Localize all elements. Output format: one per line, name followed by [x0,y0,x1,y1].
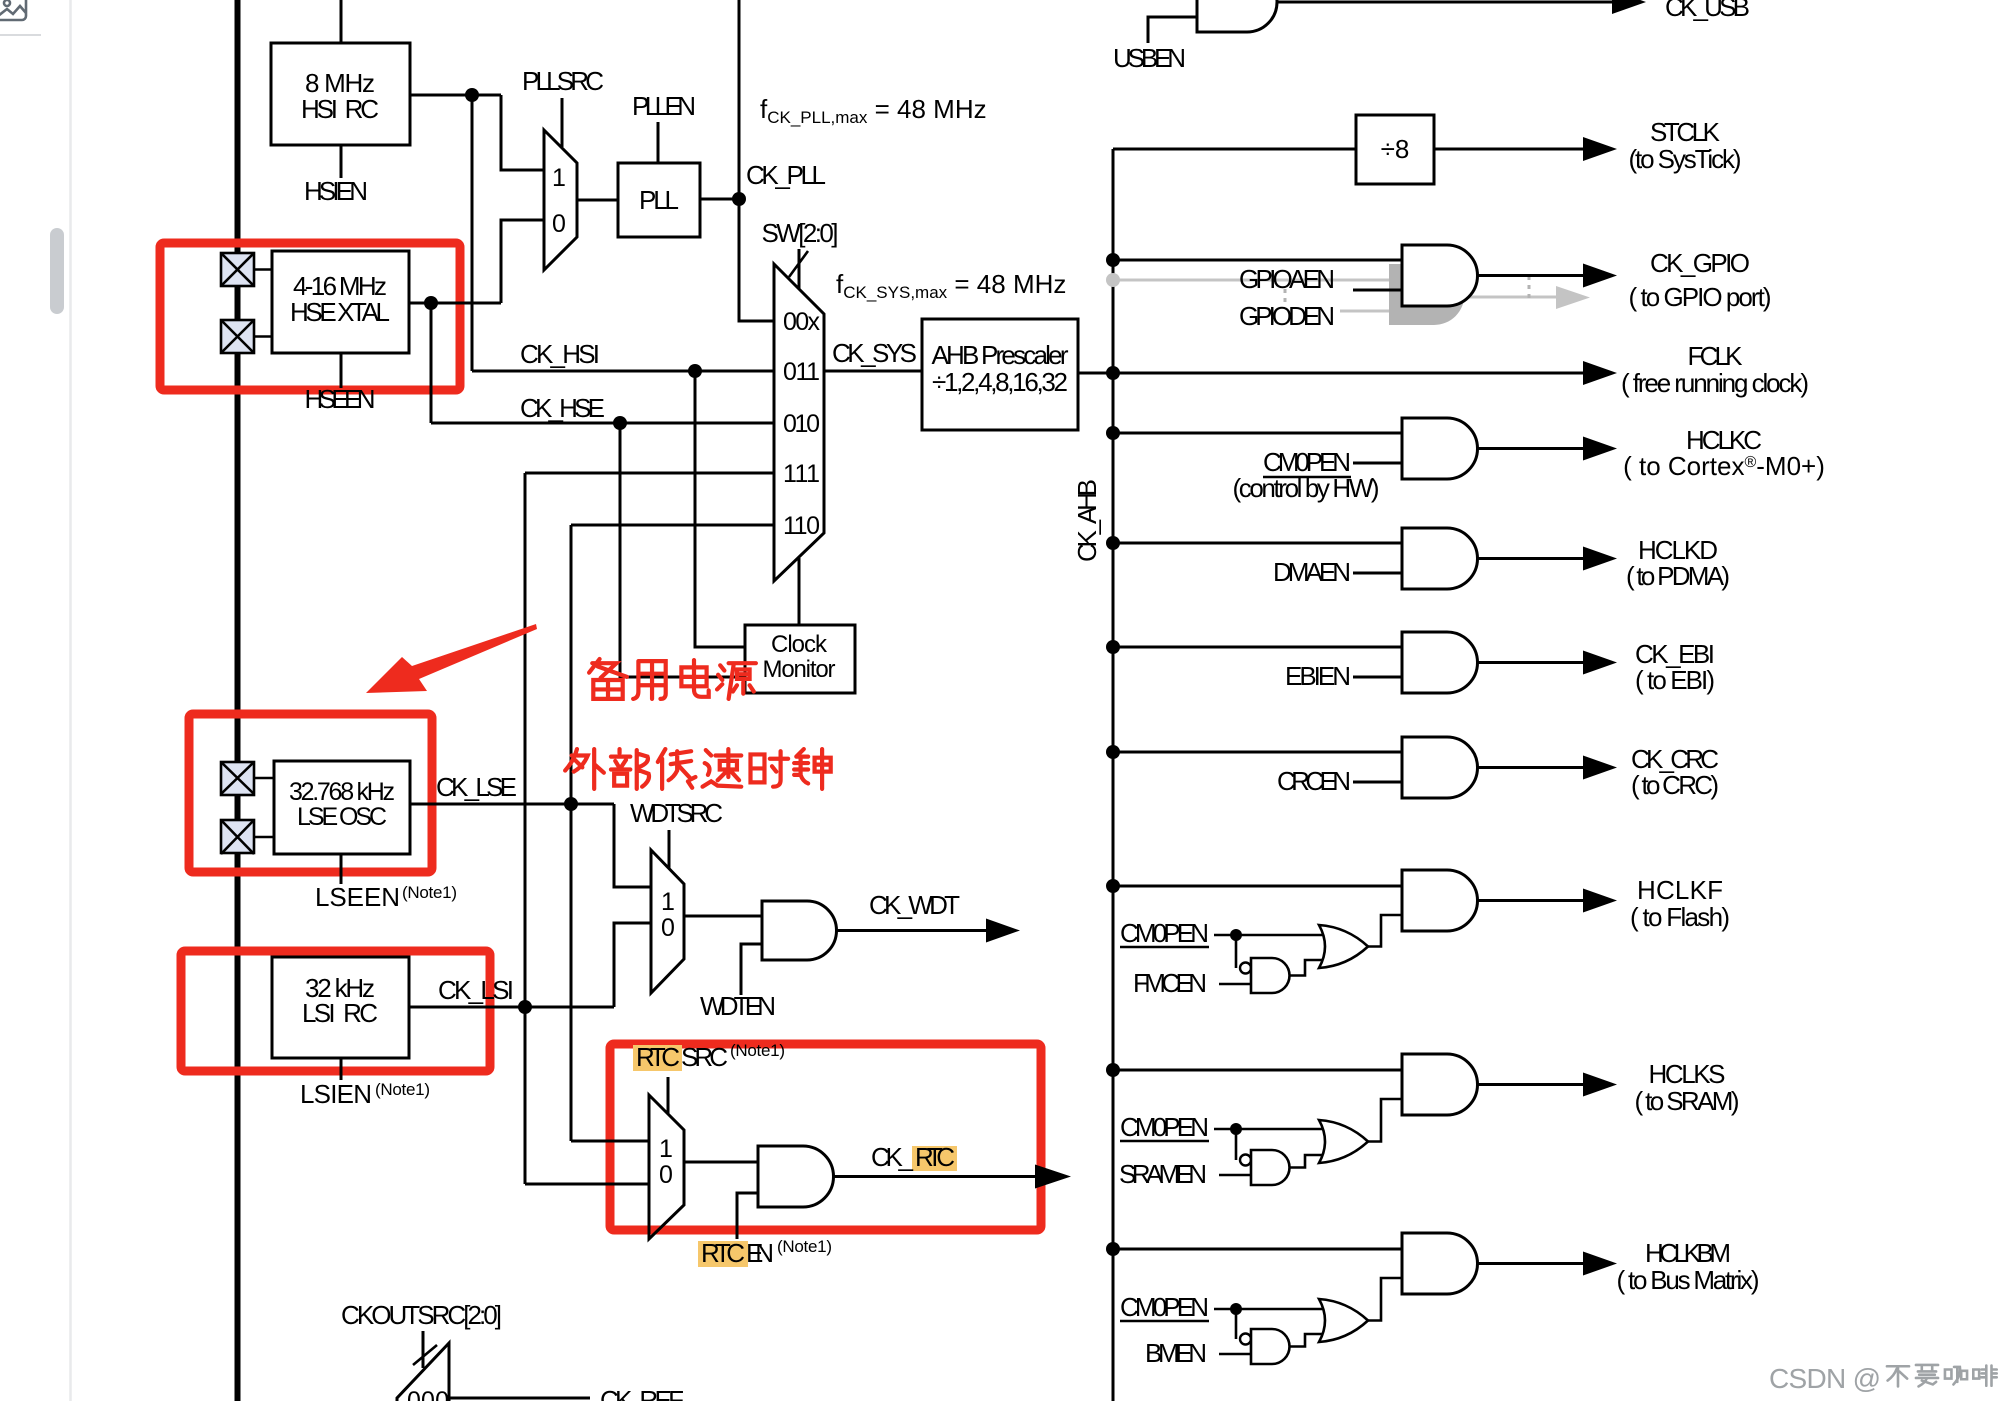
wire PLLEN stub [657,122,660,163]
wire CM0PEN stub [1353,462,1402,465]
oscillator HSE box [272,251,409,353]
slash bus-width mark [413,1345,437,1365]
wire CRCEN stub [1353,781,1402,784]
wire RTC mux input 0 [525,1183,649,1186]
wire CK_LSI [409,1006,614,1009]
mux SW system clock [774,264,824,581]
and-gate CK_CRC [1402,737,1477,798]
junction CK_HSE to monitor [613,416,627,430]
svg-text:EN: EN [746,1238,774,1268]
wire monitor to mux bottom [798,558,801,625]
svg-text:LSEEN: LSEEN [315,882,400,912]
arrow gray CK_GPIO [1556,286,1590,309]
highlight box LSI (red) [181,951,490,1071]
svg-text:(to SysTick): (to SysTick) [1629,144,1742,174]
svg-text:(Note1): (Note1) [777,1237,832,1256]
wire STCLK output [1434,148,1583,151]
junction CK_LSE node [564,797,578,811]
arrow CK_EBI [1583,651,1617,675]
wire CM0PEN to OR [1214,1308,1327,1311]
oscillator HSI box [271,43,410,145]
wire OR to gate second input [1368,1099,1402,1142]
and-gate inverted-input [1251,1329,1290,1364]
and-gate CK_RTC [758,1146,833,1207]
crystal X1 [221,253,272,286]
wire gray GPIODEN stub [1340,310,1389,313]
svg-text:CK_HSI: CK_HSI [520,339,600,369]
wire CM0PEN down to inverter [1235,1309,1238,1339]
wire HCLKC output [1477,447,1583,450]
svg-text:( to Flash): ( to Flash) [1630,902,1730,932]
mux CKOUT (clipped) [397,1343,449,1401]
wire OR to gate second input [1368,915,1402,947]
svg-text:( free running clock): ( free running clock) [1621,368,1809,398]
junction bus GPIO [1106,253,1120,267]
dotted link labels [1284,289,1287,307]
svg-text:LSI RC: LSI RC [302,998,378,1028]
svg-text:Monitor: Monitor [763,656,836,683]
wire DMAEN stub [1353,572,1402,575]
junction CK_LSI node [518,1000,532,1014]
svg-text:0: 0 [659,1161,673,1189]
svg-text:CRCEN: CRCEN [1277,766,1351,796]
wire CK_AHB to bus [1078,372,1113,375]
mux RTCSRC [649,1095,684,1239]
svg-text:HSIEN: HSIEN [304,176,368,206]
wire CK_SYS [824,370,922,373]
wire CK_HSE to clock monitor [620,423,745,677]
svg-text:111: 111 [783,460,820,488]
power domain boundary line [235,0,241,1401]
wire CM0PEN down to inverter [1235,935,1238,968]
wire HSIEN stub [340,145,343,178]
svg-text:CK_LSI: CK_LSI [438,975,514,1005]
watermark hanzi [1887,1365,1997,1386]
wire HCLKD output [1477,557,1583,560]
wire CK_GPIO output [1477,274,1583,277]
svg-text:1: 1 [659,1135,673,1163]
scrollbar thumb [50,228,64,314]
wire bus to HCLKC gate [1113,432,1402,435]
svg-text:1: 1 [661,888,675,916]
svg-text:EBIEN: EBIEN [1285,661,1351,691]
junction bus GPIO gray [1106,273,1120,287]
wire bus to div8 [1113,148,1356,151]
svg-text:CK_USB: CK_USB [1665,0,1750,22]
svg-text:000: 000 [407,1387,449,1401]
wire HCLKF output [1477,899,1583,902]
svg-text:DMAEN: DMAEN [1273,557,1351,587]
arrow CK_USB [1612,0,1646,14]
svg-text:÷1,2,4,8,16,32: ÷1,2,4,8,16,32 [932,367,1068,397]
svg-text:00x: 00x [783,308,821,336]
and-gate CK_USB (clipped) [1197,0,1277,32]
svg-text:SRAMEN: SRAMEN [1119,1159,1207,1189]
underline CM0PEN [1120,1140,1209,1142]
bus CK_AHB vertical [1112,149,1115,1401]
svg-text:( to SRAM): ( to SRAM) [1635,1086,1740,1116]
wire bus to HCLKBM gate top [1113,1248,1402,1251]
svg-text:CM0PEN: CM0PEN [1120,1292,1209,1322]
monitor box [745,625,855,693]
wire FMCEN input [1219,983,1251,986]
svg-text:HCLKF: HCLKF [1637,875,1723,905]
and-gate HCLKC [1402,418,1477,479]
svg-text:SW[2:0]: SW[2:0] [762,218,839,248]
wire CKOUTSRC select stub [422,1331,425,1368]
svg-text:SRC: SRC [681,1042,728,1072]
svg-text:RTC: RTC [636,1042,680,1072]
wire CK_CRC output [1477,766,1583,769]
svg-text:CK_WDT: CK_WDT [869,890,960,920]
and-gate HCLKS [1402,1054,1477,1115]
or-gate enable [1319,1299,1368,1342]
oscillator LSI box [272,957,409,1058]
and-gate HCLKF [1402,870,1477,931]
svg-text:PLLSRC: PLLSRC [522,66,604,96]
highlight box RTC (red) [610,1044,1041,1230]
toolbar image icon [0,0,26,20]
wire gray gate output [1462,296,1556,299]
crystal X3 [221,762,274,795]
wire HSI to PLLSRC mux 1 [501,95,544,170]
svg-text:WDTSRC: WDTSRC [630,798,723,828]
wire WDT mux output [684,915,762,918]
svg-text:32.768 kHz: 32.768 kHz [289,778,395,806]
and-gate HCLKD [1402,528,1477,589]
and-gate HCLKBM [1402,1233,1477,1294]
wire LSE riser (110/RTC1) [570,525,573,1141]
svg-text:HCLKS: HCLKS [1649,1059,1726,1089]
junction CM0PEN [1230,1303,1242,1315]
svg-text:0: 0 [552,210,566,238]
wire bus to CK_CRC gate [1113,751,1402,754]
wire HCLKBM output [1477,1262,1583,1265]
wire gray GPIODEN feed [1113,279,1389,282]
arrow CK_GPIO [1583,264,1617,288]
svg-text:÷8: ÷8 [1381,134,1410,164]
annotation text external low-speed clock (red hanzi) [565,749,831,789]
svg-text:FMCEN: FMCEN [1133,968,1207,998]
wire HCLKS output [1477,1083,1583,1086]
wire CK_LSI to WDT mux 0 [614,923,651,1007]
svg-text:Clock: Clock [771,631,828,658]
svg-text:CK_GPIO: CK_GPIO [1650,248,1750,278]
svg-text:(Note1): (Note1) [375,1080,430,1099]
svg-text:USBEN: USBEN [1113,43,1186,73]
mux PLLSRC [544,130,577,270]
svg-text:PLLEN: PLLEN [632,91,696,121]
svg-text:CM0PEN: CM0PEN [1120,918,1209,948]
wire OR to gate second input [1368,1278,1402,1321]
svg-text:CK_SYS: CK_SYS [832,338,917,368]
arrow CK_CRC [1583,756,1617,780]
wire RTCEN input [737,1193,758,1239]
or-gate enable [1319,1120,1368,1163]
wire CK_USB output [1277,1,1614,4]
svg-text:GPIOAEN: GPIOAEN [1239,264,1335,294]
svg-text:LSE OSC: LSE OSC [297,803,387,831]
svg-text:HSI RC: HSI RC [301,94,379,124]
wire PLL output [700,198,739,201]
wire SW select stub [798,249,801,289]
arrow FCLK [1583,361,1617,385]
wire CK_PLL to USB gate [738,0,741,199]
highlight RTC of RTCSRC [633,1045,682,1071]
shadow gate CK_GPIO (gray) [1389,264,1465,325]
junction bus CK_EBI [1106,640,1120,654]
svg-text:STCLK: STCLK [1650,117,1721,147]
and-gate CK_GPIO [1402,245,1477,306]
wire small and to OR [1290,1334,1325,1347]
svg-text:CK_LSE: CK_LSE [436,772,517,802]
junction bus HCLKF [1106,879,1120,893]
svg-text:CK_AHB: CK_AHB [1072,479,1102,562]
inverter bubble [1240,1155,1251,1166]
svg-text:( to Cortex®-M0+): ( to Cortex®-M0+) [1623,451,1825,481]
wire LSIEN stub [340,1058,343,1080]
svg-text:CSDN @: CSDN @ [1769,1363,1881,1394]
junction CM0PEN [1230,1123,1242,1135]
wire CK_HSE vertical [430,303,433,423]
arrow CK_RTC [1035,1165,1071,1189]
svg-text:( to EBI): ( to EBI) [1635,665,1715,695]
svg-text:HSEEN: HSEEN [305,384,376,414]
svg-text:CK_PLL: CK_PLL [746,160,826,190]
wire RTC mux input 1 [571,1140,649,1143]
wire CK_LSE [410,803,614,806]
svg-text:RTC: RTC [701,1238,745,1268]
wire CK_REF input [449,1397,590,1400]
junction CK_HSI to monitor [688,364,702,378]
wire CM0PEN to OR [1214,1128,1327,1131]
divider AHB prescaler box [922,319,1078,430]
svg-text:FCLK: FCLK [1688,341,1744,371]
underline CM0PEN [1263,476,1351,478]
wire CM0PEN down to inverter [1235,1129,1238,1160]
and-gate CK_WDT [762,901,837,960]
wire BMEN input [1219,1353,1251,1356]
wire USBEN input [1148,17,1197,43]
junction CM0PEN [1230,929,1242,941]
arrow STCLK [1583,137,1617,161]
highlight box HSE (red) [160,243,460,390]
svg-text:HCLKBM: HCLKBM [1645,1238,1731,1268]
pll PLL box [618,163,700,237]
wire CK_HSI vertical [471,95,474,371]
svg-text:RTC: RTC [915,1142,955,1172]
svg-text:CKOUTSRC[2:0]: CKOUTSRC[2:0] [341,1300,502,1330]
wire WDTSRC select stub [668,830,671,869]
wire LSEEN stub [340,854,343,884]
dotted link outputs [1528,276,1531,299]
annotation arrow (red) [366,624,537,693]
and-gate inverted-input [1251,958,1290,993]
wire HSE to PLLSRC mux 0 [501,220,544,303]
arrow HCLKBM [1583,1252,1617,1276]
wire SRAMEN input [1219,1174,1251,1177]
svg-text:GPIODEN: GPIODEN [1239,301,1335,331]
wire CK_HSI [472,370,774,373]
svg-text:CM0PEN: CM0PEN [1120,1112,1209,1142]
svg-text:PLL: PLL [639,185,679,215]
slash bus-width mark [789,251,808,277]
arrow HCLKC [1583,437,1617,461]
wire LSI riser (111/RTC0) [524,473,527,1184]
arrow CK_WDT [986,919,1020,943]
svg-text:1: 1 [552,164,566,192]
inverter bubble [1240,963,1251,974]
svg-text:CK_: CK_ [871,1142,914,1172]
wire HSE output [409,302,501,305]
underline CM0PEN [1120,1320,1209,1322]
svg-text:( to CRC): ( to CRC) [1631,770,1719,800]
wire CK_WDT output [837,929,989,932]
divider div8 box [1356,115,1434,184]
wire mux input 111 [525,472,774,475]
junction bus FCLK [1106,366,1120,380]
wire small and to OR [1290,960,1325,976]
wire CK_HSE [431,422,774,425]
wire mux input 110 [571,524,774,527]
and-gate inverted-input [1251,1150,1290,1185]
wire CM0PEN to OR [1214,934,1327,937]
toolbar divider [0,34,41,36]
svg-text:0: 0 [661,914,675,942]
svg-text:(Note1): (Note1) [730,1041,785,1060]
svg-text:WDTEN: WDTEN [700,991,776,1021]
svg-text:011: 011 [783,358,820,386]
wire small and to OR [1290,1155,1325,1168]
svg-text:LSIEN: LSIEN [300,1079,372,1109]
svg-text:( to Bus Matrix): ( to Bus Matrix) [1617,1265,1760,1295]
wire bus to HCLKF gate top [1113,885,1402,888]
wire FCLK [1113,372,1583,375]
wire RTC mux output [684,1161,758,1164]
svg-text:CK_REF: CK_REF [600,1385,684,1401]
highlight RTC of CK_RTC [912,1146,957,1171]
wire PLLSRC mux output [577,199,618,202]
mux WDTSRC [651,850,684,993]
wire CK_RTC output [834,1175,1038,1178]
sidebar divider [69,0,72,1401]
junction bus HCLKBM [1106,1242,1120,1256]
wire CK_EBI output [1477,661,1583,664]
wire HSEEN stub [340,353,343,388]
arrow HCLKS [1583,1073,1617,1097]
wire GPIOAEN stub [1353,289,1402,292]
junction HSE node [424,296,438,310]
wire RTCSRC select stub [667,1077,670,1114]
junction HSI node [465,88,479,102]
svg-text:AHB Prescaler: AHB Prescaler [932,340,1069,370]
svg-text:HSE XTAL: HSE XTAL [290,297,390,327]
wire EBIEN stub [1353,676,1402,679]
wire HSI output [410,94,501,97]
junction bus HCLKD [1106,536,1120,550]
svg-text:CK_HSE: CK_HSE [520,393,605,423]
junction CK_PLL node [732,192,746,206]
wire bus to HCLKD gate [1113,542,1402,545]
svg-text:( to GPIO port): ( to GPIO port) [1629,282,1772,312]
underline CM0PEN [1120,946,1209,948]
junction bus CK_CRC [1106,745,1120,759]
junction bus HCLKC [1106,426,1120,440]
oscillator LSE box [274,761,410,854]
wire PLLSRC select stub [561,98,564,147]
arrow HCLKF [1583,889,1617,913]
wire bus to GPIO gate [1113,259,1402,262]
and-gate CK_EBI [1402,632,1477,693]
svg-text:010: 010 [783,410,820,438]
highlight RTC of RTCEN [698,1241,748,1267]
wire CK_PLL to SW mux 00x [739,199,774,321]
svg-text:(Note1): (Note1) [402,883,457,902]
svg-text:BMEN: BMEN [1145,1338,1207,1368]
wire CK_LSE to WDT mux 1 [614,804,651,887]
svg-text:110: 110 [783,512,820,540]
inverter bubble [1240,1334,1251,1345]
wire HSI top stub [340,0,343,43]
junction bus HCLKS [1106,1063,1120,1077]
wire CK_HSI to clock monitor [695,371,745,647]
crystal X4 [221,820,274,854]
svg-text:( to PDMA): ( to PDMA) [1626,561,1730,591]
wire WDTEN input [741,944,762,995]
arrow HCLKD [1583,547,1617,571]
wire bus to CK_EBI gate [1113,646,1402,649]
annotation text backup power (red hanzi) [589,659,756,699]
crystal X2 [221,320,272,353]
or-gate enable [1319,925,1368,968]
wire bus to HCLKS gate top [1113,1069,1402,1072]
highlight box LSE (red) [189,714,432,872]
